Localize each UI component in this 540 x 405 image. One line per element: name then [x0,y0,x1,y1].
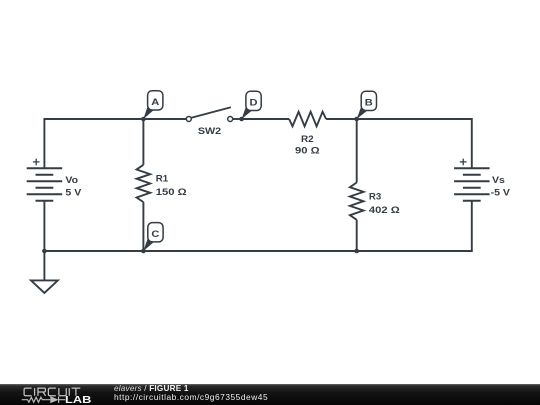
wire Vo top lead and top bus to node A [44,119,143,168]
ground [31,251,58,293]
wire bottom bus and Vs bottom lead [44,201,471,251]
wire SW2 right terminal to node D [233,118,242,120]
svg-text:A: A [151,98,160,108]
node C dot [141,249,146,254]
ground junction dot [42,249,47,254]
footer title text [114,384,189,393]
R3 bottom junction dot [354,249,359,254]
CircuitLab logo diode symbol [50,396,65,403]
wire Vo bottom lead to ground bus [43,201,45,251]
node D label [242,91,262,119]
wire R2 to node B [326,118,357,120]
svg-text:R3: R3 [369,191,381,202]
footer url text [114,392,268,402]
CircuitLab logo wordmark CIRCUIT [24,388,80,396]
wire node A to SW2 left terminal [143,118,186,120]
battery Vo 5 V [27,159,82,201]
resistor R3 402 ohm [350,119,400,251]
node D dot [239,117,244,122]
svg-text:B: B [365,98,373,108]
svg-text:402 Ω: 402 Ω [369,206,400,216]
svg-text:C: C [151,230,160,240]
CircuitLab logo circuit line with resistor zigzag [22,397,51,402]
resistor R1 150 ohm [137,119,187,251]
node B dot [354,117,359,122]
svg-text:R2: R2 [301,134,314,145]
svg-text:Vs: Vs [492,176,505,186]
resistor R2 90 ohm [289,112,326,156]
svg-text:150 Ω: 150 Ω [156,188,187,198]
node B label [357,91,377,119]
node A dot [141,117,146,122]
wire node B to Vs top lead [357,119,472,168]
switch SW2 [186,107,232,136]
svg-text:Vo: Vo [65,176,78,186]
node A label [143,91,163,119]
battery Vs -5 V [454,159,510,201]
node C label [143,223,163,251]
svg-text:D: D [250,98,258,108]
svg-text:SW2: SW2 [198,126,222,136]
svg-text:R1: R1 [156,173,168,184]
footer bar [0,384,540,405]
wire node D to R2 [242,118,290,120]
svg-text:5 V: 5 V [65,188,81,198]
svg-text:-5 V: -5 V [491,188,511,198]
svg-text:90 Ω: 90 Ω [295,146,320,156]
CircuitLab logo wordmark LAB [65,395,91,405]
